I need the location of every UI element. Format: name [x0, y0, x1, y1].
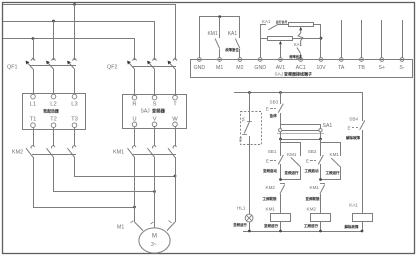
- svg-text:KM1: KM1: [266, 206, 276, 211]
- svg-text:SB2: SB2: [308, 149, 317, 154]
- svg-text:变频运行: 变频运行: [285, 170, 299, 175]
- svg-text:L1: L1: [30, 102, 36, 108]
- svg-text:TB: TB: [358, 65, 365, 71]
- svg-text:KA1: KA1: [294, 42, 303, 47]
- svg-text:KM1: KM1: [330, 152, 340, 157]
- svg-text:T2: T2: [50, 116, 57, 122]
- svg-text:U: U: [132, 116, 136, 122]
- svg-text:GND: GND: [194, 65, 206, 71]
- svg-text:KM2: KM2: [12, 150, 23, 156]
- svg-text:V: V: [153, 116, 157, 122]
- svg-text:TA: TA: [241, 117, 246, 122]
- svg-text:T3: T3: [71, 116, 78, 122]
- svg-text:R: R: [132, 102, 136, 108]
- svg-text:KA1: KA1: [349, 203, 358, 208]
- svg-text:工频联锁: 工频联锁: [263, 196, 277, 201]
- svg-text:运行信号: 运行信号: [276, 19, 288, 24]
- svg-text:KA1: KA1: [228, 31, 238, 37]
- svg-text:工频运行: 工频运行: [326, 170, 340, 175]
- svg-text:SB3: SB3: [270, 100, 279, 105]
- svg-text:T: T: [173, 102, 177, 108]
- svg-text:T1: T1: [30, 116, 37, 122]
- svg-text:E: E: [266, 107, 269, 112]
- svg-text:W: W: [172, 116, 178, 122]
- svg-text:TA: TA: [338, 65, 345, 71]
- svg-text:M2: M2: [236, 65, 243, 71]
- svg-text:L2: L2: [50, 102, 56, 108]
- svg-text:AC1: AC1: [296, 65, 306, 71]
- svg-text:S-: S-: [399, 65, 404, 71]
- svg-text:SAJ: SAJ: [141, 108, 151, 114]
- svg-text:AV1: AV1: [276, 65, 286, 71]
- svg-text:工频启动: 工频启动: [305, 168, 319, 173]
- svg-text:S: S: [153, 102, 157, 108]
- svg-text:M1: M1: [216, 65, 223, 71]
- svg-text:GND: GND: [254, 65, 266, 71]
- svg-text:S+: S+: [378, 65, 385, 71]
- svg-text:频率给定: 频率给定: [289, 54, 303, 59]
- svg-text:SA1: SA1: [323, 123, 333, 129]
- svg-text:QF2: QF2: [107, 65, 117, 71]
- svg-text:TB: TB: [238, 137, 243, 142]
- svg-text:变频运行: 变频运行: [233, 222, 247, 227]
- svg-text:变频器: 变频器: [152, 108, 166, 115]
- svg-text:KM1: KM1: [113, 150, 124, 156]
- svg-text:工频运行: 工频运行: [304, 223, 318, 228]
- svg-text:KM1: KM1: [207, 31, 218, 37]
- svg-text:SB4: SB4: [349, 116, 358, 121]
- svg-text:L3: L3: [71, 102, 77, 108]
- svg-text:解除故障: 解除故障: [345, 224, 359, 229]
- svg-text:M1: M1: [117, 225, 124, 231]
- svg-text:变频启动: 变频启动: [263, 168, 277, 173]
- svg-text:变频器接线端子: 变频器接线端子: [284, 71, 312, 77]
- svg-text:解除故障: 解除故障: [346, 135, 360, 140]
- svg-text:KA1: KA1: [262, 19, 271, 24]
- svg-text:急停: 急停: [270, 113, 278, 118]
- svg-text:SAJ: SAJ: [275, 71, 283, 76]
- svg-text:3~: 3~: [151, 242, 157, 248]
- svg-text:软起动器: 软起动器: [43, 109, 60, 114]
- svg-text:故障复位: 故障复位: [225, 47, 239, 52]
- svg-text:10V: 10V: [316, 65, 326, 71]
- svg-text:E: E: [266, 159, 269, 164]
- svg-text:E: E: [348, 126, 351, 131]
- svg-text:M: M: [152, 233, 157, 240]
- svg-text:QF1: QF1: [7, 65, 17, 71]
- svg-text:KM2: KM2: [307, 206, 317, 211]
- svg-text:KM2: KM2: [266, 185, 276, 190]
- svg-text:变频联锁: 变频联锁: [306, 196, 320, 201]
- svg-text:KM1: KM1: [310, 185, 320, 190]
- svg-text:变频运行: 变频运行: [264, 223, 278, 228]
- svg-text:HL1: HL1: [237, 205, 246, 210]
- svg-text:KM1: KM1: [287, 152, 297, 157]
- svg-text:SB1: SB1: [268, 149, 277, 154]
- svg-text:E: E: [306, 159, 309, 164]
